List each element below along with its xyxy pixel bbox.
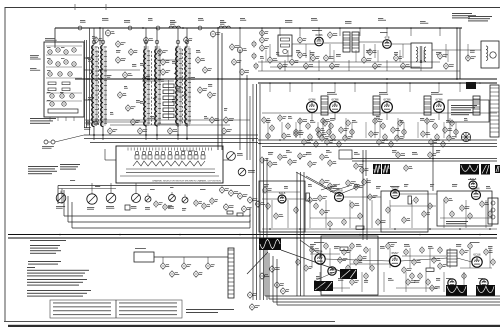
deflection part 6 xyxy=(364,246,368,253)
sync row part 15 xyxy=(422,210,430,217)
top bus part 1 xyxy=(78,26,82,30)
video det part 5 xyxy=(294,128,303,135)
mid strip part 1 xyxy=(260,156,269,163)
svg-text:6T8: 6T8 xyxy=(385,36,390,40)
sound row mid verticals xyxy=(269,44,271,58)
video det part 6 xyxy=(266,132,270,139)
control panel socket box xyxy=(448,100,489,122)
wire inter-row bus 2 xyxy=(258,82,497,84)
resistor R82 xyxy=(426,268,434,271)
wire vertical x240 xyxy=(239,50,241,150)
deflection part 27 xyxy=(354,258,362,265)
resistor R61 xyxy=(306,193,309,201)
resistor R67 xyxy=(408,196,411,204)
coil region capacitor 20 xyxy=(129,48,138,56)
coil region capacitor 15 xyxy=(161,58,170,66)
deflection part 25 xyxy=(338,256,348,263)
yoke plug circles xyxy=(488,198,498,224)
wire diagonal A xyxy=(247,252,268,274)
sync row part 11 xyxy=(368,193,378,200)
tube V7 6AL5 xyxy=(278,191,286,203)
coil region capacitor 6 xyxy=(138,127,148,135)
coil region capacitor 2 xyxy=(123,71,133,79)
tube V15 horiz out xyxy=(472,253,482,268)
coil region capacitor 16 xyxy=(161,68,171,76)
enclosure nested lines bottom right xyxy=(265,250,500,305)
pilot lamp callout xyxy=(260,272,270,280)
wire IF lower bus 1 xyxy=(258,139,497,141)
IF row part 40 xyxy=(441,140,445,147)
fine tuning pot xyxy=(227,152,236,161)
wire heat verticals xyxy=(162,257,164,263)
sound row vertical drops xyxy=(261,28,263,36)
IF row part 4 xyxy=(323,119,327,126)
coil region capacitor 10 xyxy=(210,116,220,124)
sound row part 21 xyxy=(328,31,338,39)
sound row part 12 xyxy=(368,48,377,56)
note this-connection text xyxy=(28,166,58,174)
label ladder values xyxy=(176,86,181,92)
wire vertical rail D xyxy=(221,33,223,150)
IF row part 20 xyxy=(337,140,341,147)
top bus part 3 xyxy=(156,26,160,30)
wire coil mid cross xyxy=(142,80,174,82)
deflection part 16 xyxy=(491,258,495,265)
deflection part 19 xyxy=(406,278,416,285)
wire coil bottoms step xyxy=(94,121,146,123)
waveform W3 xyxy=(460,164,479,175)
sync top part 1 xyxy=(320,178,330,185)
label T1 taps xyxy=(88,59,91,62)
pilot lamp callout xyxy=(281,287,290,295)
tube V16 damper xyxy=(448,279,456,287)
sync sep enclosure xyxy=(381,191,428,232)
RF coil T1 secondary xyxy=(101,45,103,127)
sound row part 10 xyxy=(330,62,340,70)
IF row part 14 xyxy=(346,119,350,126)
wire long diagonal sync 1 xyxy=(296,172,336,194)
deflection part 4 xyxy=(350,242,354,249)
wire T3 bottom leads xyxy=(177,127,179,140)
IF row part 21 xyxy=(373,117,383,124)
tuner box extra detail xyxy=(46,46,82,121)
wire IF lower bus 2 xyxy=(258,143,497,145)
sound input box xyxy=(278,35,292,56)
sound row part 15 xyxy=(401,62,410,70)
coil region capacitor 8 xyxy=(196,56,205,64)
IF row part 34 xyxy=(450,119,454,126)
labels under pots xyxy=(56,206,65,209)
sync row part 22 xyxy=(488,210,492,217)
deflection part 15 xyxy=(484,248,493,255)
svg-text:6SN7: 6SN7 xyxy=(392,251,399,255)
sound row vertical drops 2 xyxy=(265,50,267,62)
IF row vertical drops 2 xyxy=(267,122,269,138)
junction dots rail xyxy=(87,57,89,59)
flyback transformer xyxy=(447,250,457,266)
svg-text:6CB6: 6CB6 xyxy=(436,97,443,101)
tuning pot 2 xyxy=(238,168,246,176)
mid strip extra labels xyxy=(268,152,273,155)
sound row part 4 xyxy=(278,62,288,70)
RF coil T2 secondary xyxy=(155,49,157,127)
wire sound bottom connects xyxy=(258,70,460,72)
sound row part 19 xyxy=(260,29,269,37)
wire vertical rail A2 xyxy=(86,40,88,128)
sync row part 21 xyxy=(480,200,489,207)
coil region capacitor 17 xyxy=(203,66,212,74)
deflection part 8 xyxy=(404,248,408,255)
strip region extra labels xyxy=(70,179,75,182)
coil region capacitor 7 xyxy=(168,127,178,135)
label T3 taps xyxy=(172,61,176,64)
sync top part 3 xyxy=(346,179,356,186)
IF row part 32 xyxy=(433,122,437,129)
wire vertical right xyxy=(432,140,434,191)
sync top part 4 xyxy=(354,183,363,190)
sync row part 12 xyxy=(386,206,390,213)
label tuner xyxy=(45,38,57,41)
coil region capacitor 1 xyxy=(116,56,126,64)
wire under-coil bus 2 xyxy=(84,138,258,140)
T3 secondary taps xyxy=(188,49,191,121)
wire vertical bundle left lower xyxy=(263,158,265,300)
IF row wire interconnects xyxy=(262,112,497,114)
IF row part 27 xyxy=(395,134,404,141)
sync row part 13 xyxy=(402,216,410,223)
coil block darkening lines xyxy=(93,46,186,126)
waveform W8 xyxy=(314,281,333,291)
note tuner-control text xyxy=(60,164,80,170)
potentiometer row xyxy=(56,191,66,203)
deflection part 23 xyxy=(304,264,313,271)
sync row part 20 xyxy=(468,212,472,219)
IF transformer at x=373 xyxy=(373,96,380,115)
heat chain capacitor 1 xyxy=(161,262,170,270)
svg-text:6AU8: 6AU8 xyxy=(392,185,399,189)
IF row part 16 xyxy=(331,133,335,140)
mid strip part 8 xyxy=(328,159,337,166)
mid strip part 7 xyxy=(320,153,329,160)
tube V10 6AL5 xyxy=(469,177,477,189)
coil region capacitor 21 xyxy=(158,48,168,56)
note text xyxy=(468,16,492,21)
capacitor C2 xyxy=(210,30,220,38)
strip feed wires xyxy=(105,159,116,161)
capacitor C4 xyxy=(237,46,246,54)
sound row part 17 xyxy=(444,62,454,70)
diagonal switch wires xyxy=(321,184,340,190)
coil region capacitor 5 xyxy=(131,118,140,126)
mid strip part 2 xyxy=(268,160,277,167)
deflection part 30 xyxy=(410,272,414,279)
sync row part 7 xyxy=(320,208,330,215)
IF row part 18 xyxy=(350,128,354,135)
tone area part 2 xyxy=(229,189,239,197)
sync row part 8 xyxy=(328,220,332,227)
deflection part 12 xyxy=(438,246,442,253)
IF row part 10 xyxy=(314,140,318,147)
mid strip part 3 xyxy=(278,153,287,160)
T2 secondary taps xyxy=(158,51,161,123)
wire sound vertical 1 xyxy=(456,28,458,79)
tone area part 7 xyxy=(242,205,252,213)
pot row part 2 xyxy=(163,203,172,210)
T1 core xyxy=(98,47,100,125)
waveform W5 xyxy=(495,165,500,173)
IF row part 37 xyxy=(447,134,457,141)
capacitor C31 xyxy=(240,68,249,76)
deflection part 17 xyxy=(350,278,359,285)
video det part 4 xyxy=(286,122,290,129)
RF coil T1 primary xyxy=(92,45,94,127)
wire vertical rail C xyxy=(217,28,219,150)
antenna input terminals xyxy=(44,140,55,144)
video det part 2 xyxy=(270,124,274,131)
wire T1 top leads xyxy=(93,28,95,45)
IF row part 30 xyxy=(389,140,393,147)
wire long diagonal sync 2 xyxy=(306,176,342,196)
coil region capacitor 13 xyxy=(230,43,240,51)
sound row part 18 xyxy=(466,54,476,62)
deflection part 24 xyxy=(296,258,300,265)
sync row part 16 xyxy=(428,202,432,209)
tube V2 ratio det 6T8 xyxy=(383,36,392,49)
deflection part 20 xyxy=(418,272,422,279)
label RF AGC xyxy=(30,68,40,71)
service notes box xyxy=(50,300,182,318)
waveform W10 xyxy=(476,285,495,296)
wire chassis bus upper xyxy=(8,234,497,236)
sound row part 6 xyxy=(298,51,307,59)
sound takeoff transformer b xyxy=(352,32,359,52)
page border frame bottom xyxy=(4,320,335,322)
heat chain capacitor 3 xyxy=(182,262,191,270)
deflection verticals xyxy=(311,248,313,268)
upper left extra labels xyxy=(92,36,97,39)
svg-text:6AL5: 6AL5 xyxy=(470,177,477,181)
note paragraph 3 xyxy=(27,290,91,297)
wire under-coil bus 3 xyxy=(90,142,258,144)
sync row part 25 xyxy=(376,218,386,225)
wire under-coil bus 1 xyxy=(84,134,258,136)
sync row part 24 xyxy=(342,218,346,225)
sync row mesh wires xyxy=(262,191,300,193)
sync row part 3 xyxy=(274,212,284,219)
T1 primary taps xyxy=(95,47,98,124)
pilot lamp callout xyxy=(250,303,260,311)
sync row part 23 xyxy=(318,194,327,201)
sound row part 9 xyxy=(324,54,334,62)
IF stage labels xyxy=(327,92,337,95)
capacitor C3 xyxy=(144,36,154,44)
sync row part 5 xyxy=(308,196,317,203)
coil region capacitor 3 xyxy=(118,91,127,99)
wire sound row hookups xyxy=(292,43,315,45)
waveform W9 xyxy=(446,285,467,296)
waveform W2 xyxy=(382,164,390,174)
svg-text:6CB6: 6CB6 xyxy=(384,97,391,101)
wire T2 bottom leads xyxy=(145,127,147,140)
sync row verticals xyxy=(271,200,273,228)
mid strip part 11 xyxy=(396,151,405,158)
coil region capacitor 18 xyxy=(208,91,216,99)
wire sound vertical 2 xyxy=(459,28,461,79)
deflection part 32 xyxy=(426,278,430,285)
IF row part 31 xyxy=(425,117,435,124)
wire C4 drop xyxy=(239,28,241,47)
channel indicator spoked circle xyxy=(461,132,470,141)
wire top bus drop xyxy=(54,28,56,48)
deflection part 10 xyxy=(420,246,424,253)
note text xyxy=(30,118,56,124)
wire mid strip line 1 xyxy=(352,158,497,160)
IF row part 9 xyxy=(302,138,311,145)
note paragraph 1 xyxy=(27,267,89,276)
note line xyxy=(30,240,66,241)
pot row part 3 xyxy=(194,199,202,206)
IF row part 2 xyxy=(306,122,310,129)
labels above top bus xyxy=(80,20,86,23)
wire vertical bundle center xyxy=(296,172,298,296)
AGC enclosure xyxy=(259,181,305,232)
mid strip part 9 xyxy=(354,162,364,169)
RF coil T2 primary xyxy=(144,49,146,127)
IF row part 25 xyxy=(369,130,379,137)
sync row part 4 xyxy=(294,206,298,213)
svg-text:6CB6: 6CB6 xyxy=(473,186,480,190)
deflection part 29 xyxy=(402,266,412,273)
sound row part 14 xyxy=(394,54,402,62)
IF row part 38 xyxy=(454,128,458,135)
control panel enclosure lines xyxy=(64,190,250,228)
pilot lamp callout xyxy=(275,281,284,289)
tube V13 xyxy=(328,267,336,275)
wire sound row mesh 1 xyxy=(258,61,440,63)
channel selector switch assembly xyxy=(116,146,223,183)
wire chassis bus lower xyxy=(8,237,497,239)
pot row part 1 xyxy=(154,200,163,207)
coil block inner verticals xyxy=(97,50,190,124)
note text xyxy=(452,13,476,18)
wire coil region cross 4 xyxy=(157,59,180,61)
IF row part 22 xyxy=(381,122,385,129)
capacitor C5 xyxy=(184,36,193,44)
coil top circles xyxy=(92,40,96,44)
deflection extra labels xyxy=(310,244,316,247)
tube V6 3RD VIDEO IF 6CB6 xyxy=(434,97,445,112)
sound row part 1 xyxy=(260,36,269,44)
wire tuner to coils xyxy=(84,57,92,59)
tone area part 4 xyxy=(248,196,258,204)
capacitor C1b xyxy=(94,36,103,44)
more dots xyxy=(246,78,248,80)
IF row part 13 xyxy=(339,126,349,133)
wire diagonal C xyxy=(300,240,322,256)
deflection mesh wires xyxy=(310,253,340,255)
sync row part 1 xyxy=(263,186,272,193)
tube V11 noise gate xyxy=(472,186,481,199)
vert osc enclosure xyxy=(321,236,378,295)
T2 primary taps xyxy=(147,51,150,123)
wire coil region cross 2 xyxy=(110,124,230,126)
top bus part 2 xyxy=(128,26,132,30)
note text xyxy=(446,221,468,224)
sync row part 6 xyxy=(314,202,318,209)
noise inverter enclosure xyxy=(437,191,492,226)
T2 core xyxy=(151,51,153,125)
junction dots on buses xyxy=(261,27,263,29)
video det part 3 xyxy=(278,114,287,121)
antenna terminals xyxy=(86,121,98,125)
deflection part 21 xyxy=(430,284,440,291)
IF row part 5 xyxy=(294,130,304,137)
sync row part 19 xyxy=(460,204,470,211)
video trap box xyxy=(339,150,352,159)
label L14 xyxy=(220,22,226,25)
page border frame left xyxy=(4,8,6,322)
deflection part 2 xyxy=(324,242,328,249)
RF coil T3 primary xyxy=(176,47,178,127)
tube V4 1ST VIDEO IF 6CB6 xyxy=(330,97,341,112)
sound left part 3 xyxy=(254,63,258,70)
label sound if title xyxy=(312,29,322,32)
IF row part 24 xyxy=(398,119,402,126)
sound left part 2 xyxy=(252,53,256,60)
resistor tone 2 xyxy=(237,213,243,216)
wire coil region cross 1 xyxy=(85,119,250,121)
wire B+ top bus xyxy=(55,27,462,29)
video det part 1 xyxy=(262,116,271,123)
wire IF lower bus 3 xyxy=(262,146,497,148)
tube V14 horiz osc 6SN7 xyxy=(389,251,400,266)
capacitor C30 xyxy=(232,58,242,66)
selector strip dense ticks xyxy=(128,148,212,151)
deflection part 28 xyxy=(370,264,374,271)
wire vertical rail A xyxy=(84,40,86,128)
note paragraph 2 xyxy=(27,279,87,286)
svg-text:6CB6: 6CB6 xyxy=(332,97,339,101)
svg-text:6AL5: 6AL5 xyxy=(279,191,286,195)
sound left part 1 xyxy=(252,41,256,48)
coil region capacitor 12 xyxy=(108,127,118,135)
bottom margin bar xyxy=(8,325,500,327)
tube V17 hv rect xyxy=(480,279,488,287)
mid strip part 4 xyxy=(288,158,297,165)
IF row part 29 xyxy=(377,138,385,145)
label tube heat xyxy=(135,247,146,250)
sound row part 20 xyxy=(298,36,307,44)
waveform W7 xyxy=(340,269,357,279)
tube V1 sound IF 6CB6 xyxy=(315,33,324,46)
coil region capacitor 9 xyxy=(198,86,207,94)
IF row part 26 xyxy=(383,133,387,140)
mid strip part 6 xyxy=(308,160,317,167)
sound row extra labels xyxy=(260,56,264,59)
wire strip left verticals xyxy=(57,186,59,205)
coil region capacitor 4 xyxy=(126,104,136,112)
deflection part 31 xyxy=(438,262,447,269)
mid strip part 12 xyxy=(404,164,413,171)
tube heat system box xyxy=(134,252,154,262)
wire antenna lead xyxy=(55,135,84,142)
mid strip part 5 xyxy=(298,152,307,159)
T3 primary taps xyxy=(179,49,182,121)
bottom right extra labels xyxy=(316,276,320,279)
T3 core xyxy=(182,49,184,125)
coil region capacitor 19 xyxy=(116,40,126,48)
sync row part 18 xyxy=(450,210,454,217)
